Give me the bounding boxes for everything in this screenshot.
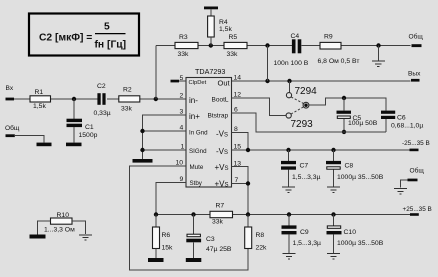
- wire -Vs rail pin15: [232, 149, 411, 151]
- svg-text:TDA7293: TDA7293: [195, 67, 225, 76]
- capacitor C7: [281, 150, 321, 187]
- svg-text:BootL: BootL: [212, 97, 229, 104]
- node C5 bottom: [342, 130, 346, 134]
- capacitor C5: [337, 111, 378, 128]
- wire bottom node rail: [156, 214, 410, 216]
- svg-text:R10: R10: [57, 212, 70, 219]
- wire top rail R3 segment: [156, 45, 292, 47]
- svg-text:7294: 7294: [295, 86, 318, 97]
- svg-text:Вх: Вх: [6, 85, 14, 92]
- ground bar at R10: [30, 235, 46, 239]
- svg-text:33k: 33k: [121, 106, 133, 113]
- resistor R5: [224, 34, 247, 58]
- svg-text:+25...35 В: +25...35 В: [403, 206, 432, 213]
- svg-text:1500p: 1500p: [79, 132, 98, 139]
- ground symbol C7: [282, 187, 295, 192]
- svg-text:Stby: Stby: [190, 180, 203, 187]
- wire stby down: [156, 183, 186, 215]
- node in+/InGnd: [140, 129, 144, 133]
- resistor R10: [44, 212, 75, 234]
- svg-text:C3: C3: [206, 236, 215, 243]
- wire out rail pin14 to Вых: [232, 80, 411, 82]
- svg-text:in-: in-: [189, 96, 198, 105]
- svg-text:-25...35 В: -25...35 В: [402, 140, 430, 147]
- capacitor C8: [326, 150, 384, 187]
- svg-text:Out: Out: [218, 79, 231, 88]
- resistor R6: [153, 215, 174, 259]
- svg-text:SIGnd: SIGnd: [189, 148, 207, 155]
- wire C5 top stub: [343, 98, 345, 111]
- resistor R4: [208, 16, 233, 37]
- switch wiper dashed 7293: [291, 107, 303, 114]
- svg-text:In Gnd: In Gnd: [189, 130, 208, 137]
- resistor R7: [210, 202, 233, 225]
- formula box C2 = 5/fn: [29, 14, 139, 56]
- wire switch common to bootstrap caps top: [309, 98, 386, 111]
- svg-text:in+: in+: [189, 112, 200, 121]
- wire R4 to rail: [210, 37, 212, 46]
- node R9/ground: [376, 43, 380, 47]
- node C7 top: [286, 148, 290, 152]
- ground symbol C8: [327, 187, 340, 192]
- wire in+ / gnd bus: [143, 115, 187, 159]
- node C9 top: [287, 212, 291, 216]
- node out/switch: [287, 79, 291, 83]
- terminal -25...35 В: [402, 140, 430, 151]
- node +Vs/R7/R8: [246, 212, 250, 216]
- op-amp U1 TDA7293 body: [186, 67, 232, 187]
- node C10 top: [331, 212, 335, 216]
- resistor R1: [30, 89, 51, 110]
- svg-text:33k: 33k: [212, 219, 224, 226]
- svg-text:R7: R7: [216, 202, 225, 209]
- svg-text:C2: C2: [97, 83, 106, 90]
- node R2/feedback junction: [154, 97, 158, 101]
- resistor R9: [318, 34, 360, 66]
- ground terminal Общ input: [5, 124, 20, 137]
- svg-text:5: 5: [104, 22, 110, 33]
- ground bar signal gnd: [133, 159, 153, 163]
- capacitor C10: [327, 215, 384, 254]
- resistor R3: [175, 34, 198, 58]
- svg-text:Mute: Mute: [190, 164, 204, 171]
- node R1/C1 junction: [72, 97, 76, 101]
- terminal +25...35 В: [403, 206, 432, 216]
- wire C4 to Общ terminal: [301, 45, 410, 47]
- svg-text:C8: C8: [345, 163, 354, 170]
- ground symbol at R10: [79, 235, 92, 240]
- wire mute loop: [130, 166, 249, 270]
- svg-text:C1: C1: [85, 124, 94, 131]
- svg-text:R5: R5: [229, 34, 238, 41]
- svg-text:2: 2: [180, 93, 184, 100]
- node InGnd/SIGnd: [140, 148, 144, 152]
- switch wiper dashed 7294: [291, 97, 303, 103]
- wire BootL to 7293 contact: [232, 98, 286, 116]
- switch to 7294 position: [286, 81, 317, 98]
- svg-text:1: 1: [181, 144, 185, 151]
- svg-text:1,5k: 1,5k: [219, 26, 232, 33]
- switch common contact: [303, 102, 309, 108]
- svg-text:Вых: Вых: [408, 70, 421, 77]
- input terminal Вх: [6, 85, 15, 100]
- svg-text:C7: C7: [300, 163, 309, 170]
- svg-text:1,5k: 1,5k: [33, 103, 46, 110]
- resistor R8: [245, 215, 267, 252]
- svg-text:3: 3: [180, 109, 184, 116]
- ground bar at Общ input: [37, 143, 52, 147]
- svg-text:8: 8: [234, 126, 238, 133]
- wire R5 node down to out rail: [267, 46, 269, 82]
- svg-text:1000µ 35...50В: 1000µ 35...50В: [337, 240, 384, 247]
- svg-text:1000µ 35...50В: 1000µ 35...50В: [337, 174, 384, 181]
- wire C1 to ground bar: [73, 127, 75, 143]
- svg-text:100n 100 В: 100n 100 В: [274, 60, 309, 67]
- svg-text:R9: R9: [324, 34, 333, 41]
- svg-text:5: 5: [180, 75, 184, 82]
- node pin7/pin13: [246, 181, 250, 185]
- terminal Общ top right: [409, 33, 424, 48]
- svg-text:C2 [мкФ] =: C2 [мкФ] =: [39, 33, 92, 44]
- svg-text:Общ: Общ: [5, 124, 20, 132]
- resistor R2: [119, 87, 140, 113]
- svg-text:Btstrap: Btstrap: [208, 113, 229, 120]
- svg-text:R1: R1: [35, 89, 44, 96]
- svg-text:R2: R2: [123, 87, 132, 94]
- svg-text:1,5...3,3µ: 1,5...3,3µ: [293, 240, 322, 247]
- svg-text:6,8 Ом 0,5 Вт: 6,8 Ом 0,5 Вт: [318, 58, 360, 65]
- svg-text:1,5...3,3µ: 1,5...3,3µ: [292, 174, 321, 181]
- svg-text:22k: 22k: [256, 245, 268, 252]
- wire pin7 stub: [232, 183, 249, 185]
- pin 5 ClpDet no-connect bar: [171, 75, 187, 82]
- svg-text:33k: 33k: [227, 51, 239, 58]
- wire R9 node to ground: [378, 46, 380, 62]
- ground bar under R6: [148, 258, 164, 262]
- svg-text:12: 12: [234, 92, 242, 99]
- svg-text:100µ 50В: 100µ 50В: [348, 120, 378, 127]
- svg-text:R8: R8: [256, 232, 265, 239]
- node C3 top: [191, 212, 195, 216]
- capacitor C3: [186, 215, 232, 259]
- svg-text:ClpDet: ClpDet: [189, 80, 207, 86]
- wire Общ to ground bar: [15, 136, 44, 143]
- capacitor C6: [381, 111, 423, 130]
- wire C2 to IC pin 2: [107, 98, 186, 100]
- svg-text:1...3,3 Ом: 1...3,3 Ом: [44, 227, 75, 234]
- wire pin13/pin7 +Vs drop: [232, 167, 249, 215]
- svg-text:10: 10: [176, 160, 184, 167]
- svg-text:R6: R6: [162, 232, 171, 239]
- svg-text:0,68...1,0µ: 0,68...1,0µ: [391, 123, 423, 130]
- ground symbol C9: [283, 254, 296, 259]
- svg-text:0,33µ: 0,33µ: [94, 110, 111, 117]
- svg-text:C4: C4: [291, 33, 300, 40]
- svg-text:14: 14: [234, 75, 242, 82]
- wire Btstrap pin6 rail: [232, 113, 387, 132]
- ground symbol at R9: [372, 61, 385, 66]
- capacitor C1: [67, 119, 98, 139]
- svg-text:R4: R4: [219, 19, 228, 26]
- node out/R5 feedback: [265, 79, 269, 83]
- capacitor C9: [282, 215, 322, 254]
- svg-text:Общ: Общ: [410, 167, 425, 175]
- wire input to C2: [14, 98, 98, 100]
- wire R10 left to signal ground: [38, 221, 51, 235]
- switch to 7293 position: [286, 113, 313, 130]
- svg-text:15k: 15k: [162, 245, 174, 252]
- svg-text:C9: C9: [300, 229, 309, 236]
- wire pin8 to -Vs rail: [232, 133, 249, 151]
- svg-text:C10: C10: [344, 229, 357, 236]
- wire C6 bottom stub: [385, 119, 387, 132]
- node C8 top: [331, 148, 335, 152]
- svg-text:6: 6: [234, 107, 238, 114]
- svg-text:R3: R3: [179, 34, 188, 41]
- svg-text:4: 4: [180, 125, 184, 132]
- terminal Общ middle right: [401, 167, 425, 188]
- wire feedback vertical (R3 to in-): [155, 46, 157, 100]
- svg-text:7: 7: [235, 177, 239, 184]
- ground symbol at Общ: [394, 189, 407, 194]
- node C5 top: [342, 96, 346, 100]
- svg-text:7293: 7293: [291, 119, 314, 130]
- wire bar to R4: [210, 9, 212, 16]
- svg-text:33k: 33k: [178, 51, 190, 58]
- terminal Вых: [408, 70, 421, 81]
- ground bar under C1: [66, 143, 82, 147]
- power bar above R4: [204, 7, 218, 10]
- svg-text:Общ: Общ: [409, 33, 424, 41]
- node pin8/pin15: [246, 148, 250, 152]
- svg-text:47µ 25В: 47µ 25В: [206, 246, 232, 253]
- wire C5 bottom stub: [343, 119, 345, 132]
- ground symbol C10: [327, 254, 340, 259]
- wire C1 branch: [73, 99, 75, 119]
- node R3/R4/R5: [209, 43, 213, 47]
- node stby/R6: [154, 212, 158, 216]
- node R5/C4/out: [265, 43, 269, 47]
- capacitor C2: [94, 83, 111, 117]
- svg-text:9: 9: [180, 176, 184, 183]
- svg-text:fн [Гц]: fн [Гц]: [95, 40, 127, 51]
- svg-text:C6: C6: [397, 115, 406, 122]
- wire R10 right to power ground: [72, 221, 86, 234]
- svg-text:15: 15: [234, 144, 242, 151]
- capacitor C4: [274, 33, 309, 67]
- ground bar under C3: [186, 258, 202, 262]
